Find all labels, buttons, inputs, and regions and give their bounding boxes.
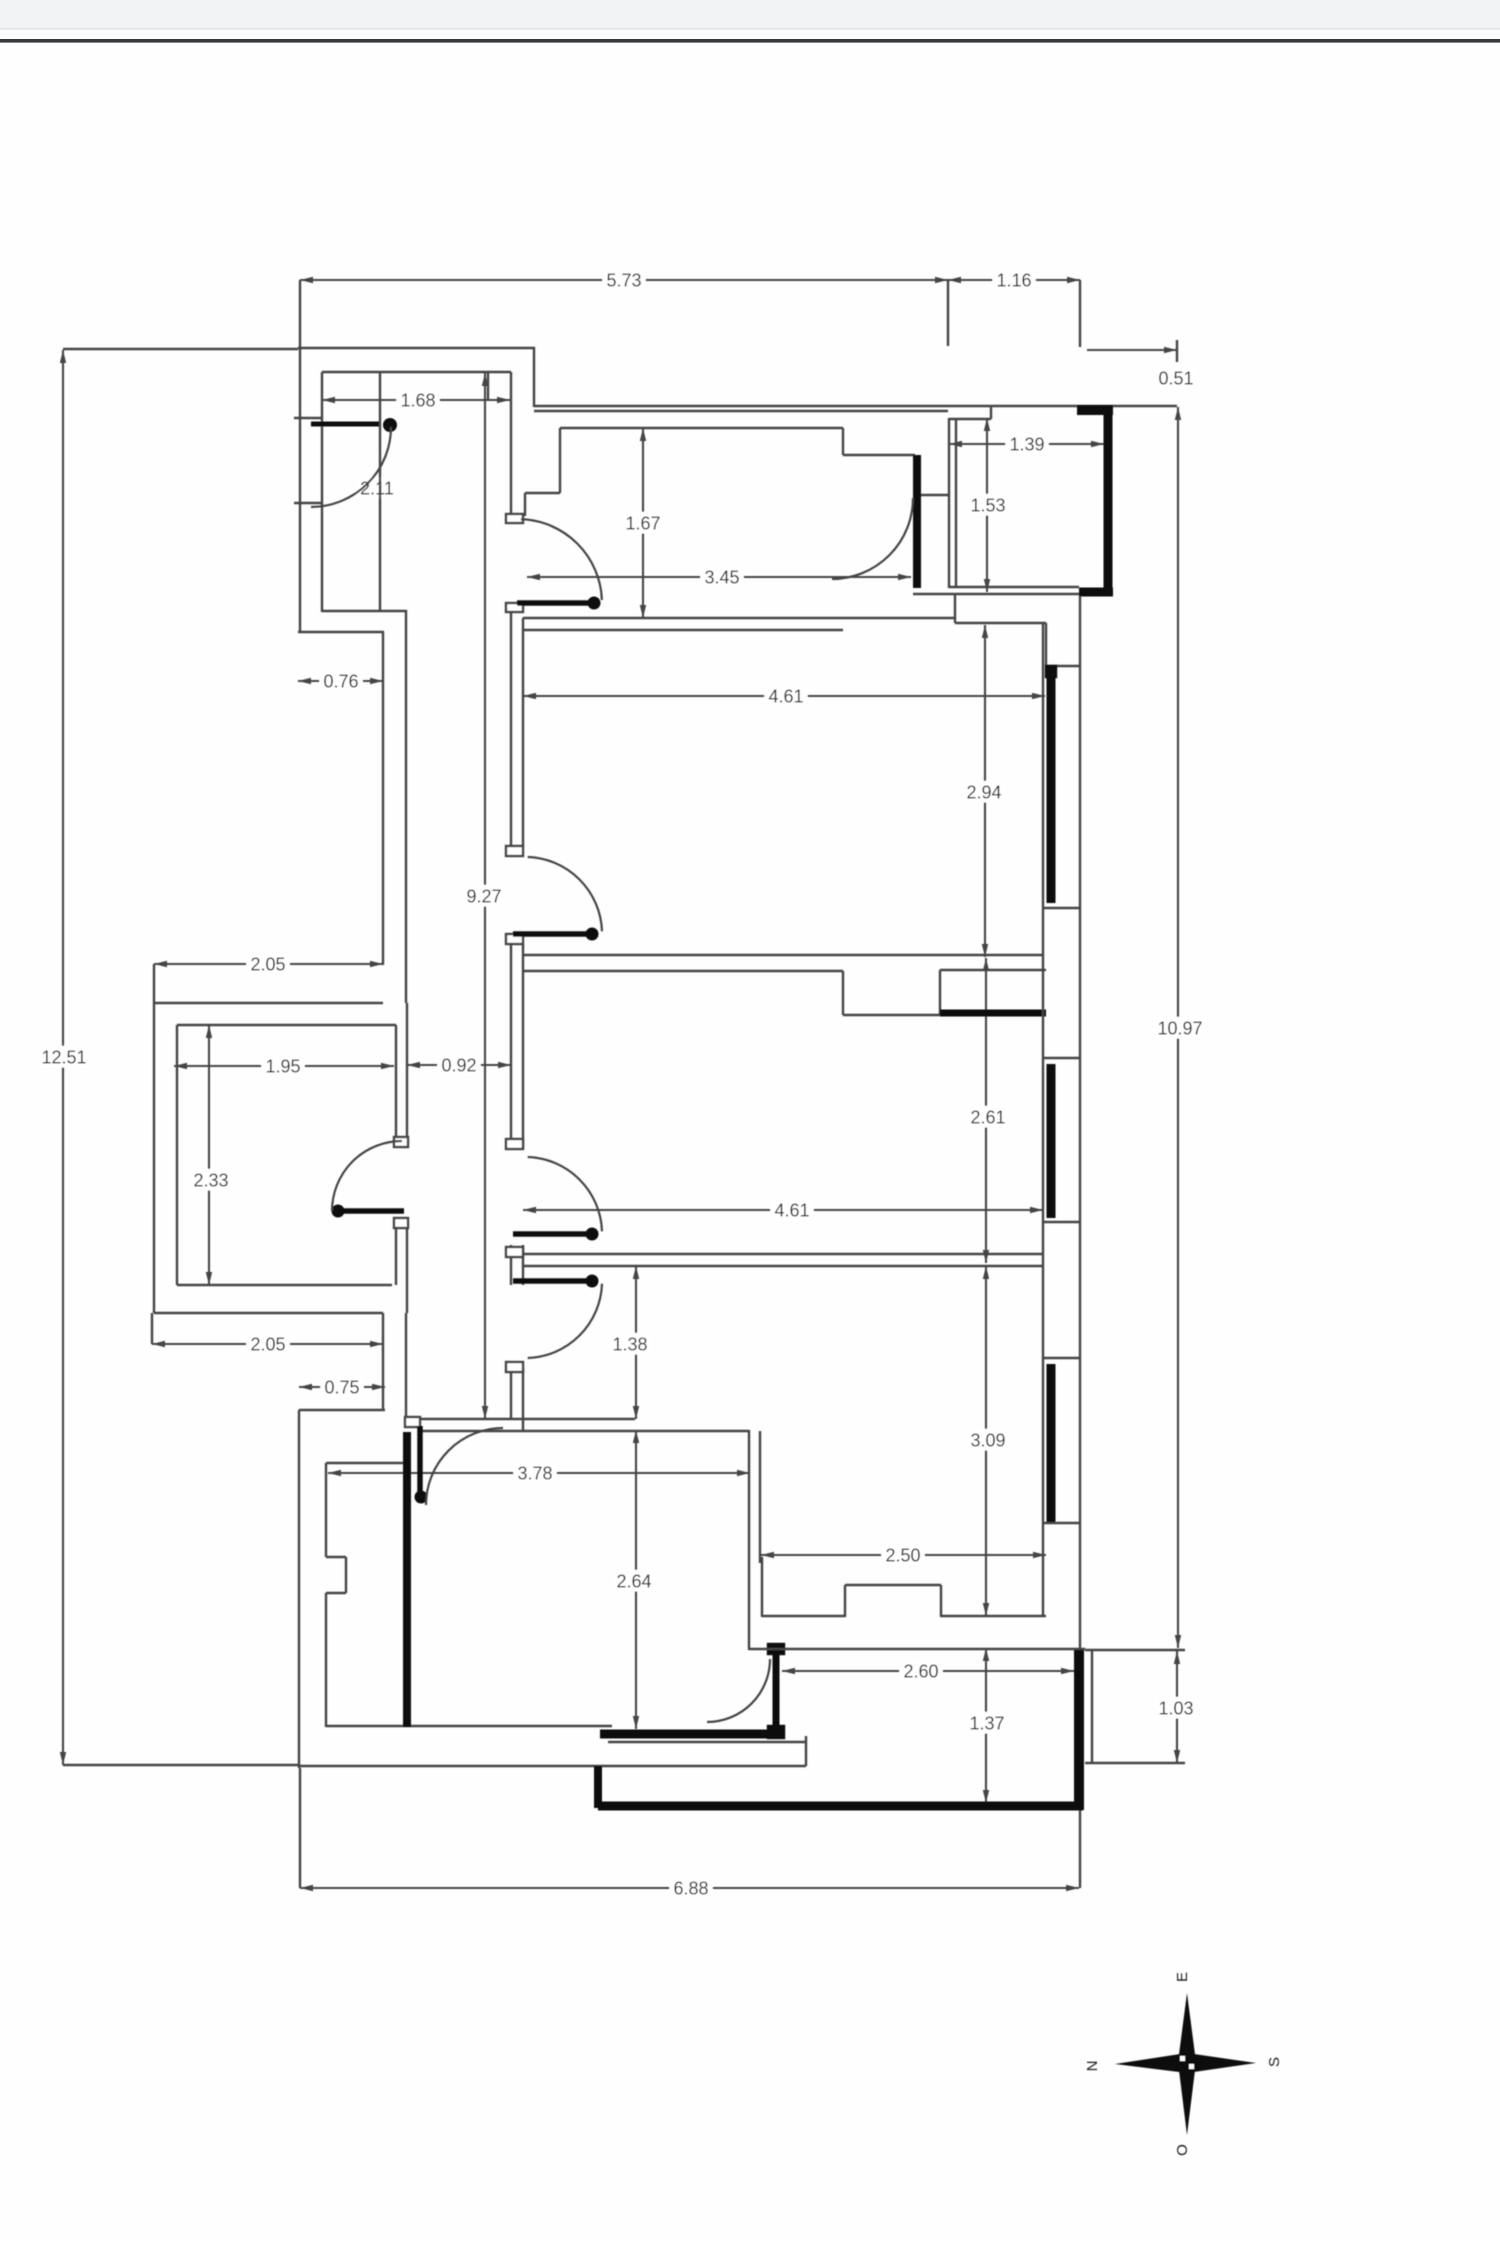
tick 1.03 top xyxy=(1085,1649,1185,1651)
dimension 2.05 upper left xyxy=(154,953,383,975)
bedroom1 top right link xyxy=(917,617,955,619)
window 3 thick line xyxy=(1047,1364,1056,1523)
svg-text:1.53: 1.53 xyxy=(970,495,1005,515)
wc door knob xyxy=(332,1205,345,1218)
wardrobe niche left xyxy=(842,971,844,1015)
svg-text:2.61: 2.61 xyxy=(970,1107,1005,1127)
extension line left for 5.73 xyxy=(299,280,301,345)
extension 6.88 right xyxy=(1079,1810,1081,1888)
label 2.11 xyxy=(355,477,398,499)
wardrobe niche bottom xyxy=(843,1014,940,1016)
door arc balcony xyxy=(311,427,391,507)
terrace edge right vertical xyxy=(1079,596,1081,1650)
bottomright room left wall inner xyxy=(759,1431,761,1563)
dimension 0.76 xyxy=(298,670,383,692)
top-right room thick bottom xyxy=(1079,588,1113,597)
corridor left wall mid outer xyxy=(406,1003,408,1137)
balcony left wall xyxy=(321,372,323,612)
duct box left xyxy=(487,372,489,400)
wc outer top wall xyxy=(154,1002,383,1004)
step under top-right room vertical xyxy=(1045,623,1047,666)
extension for 2.05 upper xyxy=(153,964,155,1003)
bedroom1 top wall xyxy=(523,617,917,619)
wc door jamb bottom xyxy=(394,1218,408,1228)
porch step thick vertical xyxy=(594,1766,602,1808)
top-right room left wall xyxy=(948,418,950,588)
door leaf bedroom3 xyxy=(513,1278,598,1284)
balcony right wall xyxy=(379,372,381,612)
window 2 bottom tick xyxy=(1043,1221,1080,1223)
wc inner right wall upper xyxy=(395,1025,397,1137)
hall door arc xyxy=(426,1428,503,1505)
extension line mid for 5.73/1.16 xyxy=(947,280,949,346)
kitchen outer top xyxy=(299,1409,385,1411)
wardrobe niche right xyxy=(939,970,941,1015)
dimension 2.33 xyxy=(189,1025,232,1285)
dimension 1.53 xyxy=(966,418,1009,592)
door arc corridor top xyxy=(521,519,602,600)
svg-text:5.73: 5.73 xyxy=(606,270,641,290)
wc inner left wall xyxy=(176,1025,178,1285)
dimension 2.05 lower left xyxy=(152,1333,383,1355)
dimension 2.64 xyxy=(612,1430,655,1729)
balcony top wall xyxy=(322,371,511,373)
svg-text:3.45: 3.45 xyxy=(704,567,739,587)
entrance door jamb top xyxy=(768,1644,784,1654)
extension 6.88 left xyxy=(299,1768,301,1888)
thick interior wall xyxy=(403,1432,411,1727)
entrance door leaf xyxy=(773,1650,780,1737)
hall door jamb xyxy=(405,1417,420,1427)
dimension 9.27 corridor xyxy=(462,373,505,1419)
wc door jamb top xyxy=(394,1137,408,1147)
bedroom1 bottom wall xyxy=(523,954,1043,956)
door arc room A xyxy=(832,498,913,579)
window nub upper xyxy=(1046,666,1056,677)
corridor right wall inner seg3 xyxy=(522,1245,524,1285)
dimension 0.92 xyxy=(407,1054,511,1076)
door arc bedroom2 xyxy=(528,1157,602,1231)
window 2 thick line xyxy=(1047,1064,1056,1218)
bedroom2 bottom wall inner xyxy=(523,1265,1043,1267)
dimension 1.37 xyxy=(965,1648,1008,1803)
top toolbar band xyxy=(0,0,1500,30)
thick wall right of room A xyxy=(913,455,921,588)
door jamb bedroom3 top xyxy=(506,1362,523,1372)
entrance thick wall xyxy=(600,1730,772,1739)
svg-text:1.39: 1.39 xyxy=(1009,434,1044,454)
kitchen notch top xyxy=(326,1556,346,1558)
svg-text:2.11: 2.11 xyxy=(360,478,394,498)
dimension 1.03 xyxy=(1154,1651,1197,1763)
svg-text:1.37: 1.37 xyxy=(969,1713,1004,1733)
svg-text:1.68: 1.68 xyxy=(400,390,435,410)
bottomright room bottom inner wall xyxy=(749,1648,1085,1650)
dimension 4.61 upper xyxy=(523,685,1045,707)
window 3 top tick xyxy=(1043,1357,1080,1359)
dimension 6.88 bottom xyxy=(300,1877,1079,1899)
svg-text:0.51: 0.51 xyxy=(1158,368,1193,388)
duct box right xyxy=(510,372,512,400)
corridor right wall outer seg3 xyxy=(510,944,512,1141)
svg-text:2.50: 2.50 xyxy=(885,1545,920,1565)
dimension 12.51 left xyxy=(38,350,91,1765)
bottomright room left wall outer xyxy=(748,1430,750,1650)
kitchen inner bottom xyxy=(326,1725,612,1727)
outer wall step vertical xyxy=(533,347,535,407)
dimension 2.50 xyxy=(761,1544,1046,1566)
kitchen inner left wall lower xyxy=(325,1593,327,1727)
room A left wall xyxy=(559,428,561,493)
top-right room bottom wall outer xyxy=(913,593,1079,595)
door jamb corridor top a xyxy=(506,514,523,523)
step under top-right room horizontal b xyxy=(1046,665,1080,667)
door knob bedroom3 xyxy=(586,1275,599,1288)
room A jog down right xyxy=(842,428,844,455)
dimension 3.78 xyxy=(328,1462,750,1484)
closet notch left xyxy=(844,1585,846,1617)
bottomright room top wall xyxy=(420,1430,749,1432)
extension line bottom for 12.51 xyxy=(63,1764,299,1766)
svg-text:0.76: 0.76 xyxy=(323,671,358,691)
svg-text:9.27: 9.27 xyxy=(466,886,501,906)
dimension 10.97 right xyxy=(1154,407,1207,1648)
svg-text:0.92: 0.92 xyxy=(441,1055,476,1075)
dimension 1.67 xyxy=(621,428,664,618)
kitchen inner top xyxy=(326,1462,404,1464)
svg-text:2.94: 2.94 xyxy=(966,782,1001,802)
wc outer left wall xyxy=(153,1003,155,1313)
door leaf corridor top xyxy=(517,600,598,606)
svg-text:4.61: 4.61 xyxy=(768,686,803,706)
svg-text:0.75: 0.75 xyxy=(324,1377,359,1397)
door leaf top-left balcony xyxy=(311,422,379,427)
entrance door arc xyxy=(707,1659,770,1722)
corridor left wall mid lower xyxy=(406,1228,408,1313)
room A step vertical xyxy=(524,493,526,516)
tick on wall upper xyxy=(294,417,322,419)
window 3 bottom tick xyxy=(1043,1522,1080,1524)
bottom thick wall xyxy=(598,1802,1083,1811)
svg-text:2.64: 2.64 xyxy=(616,1571,651,1591)
dimension 1.16 top xyxy=(948,269,1080,291)
wc outer bottom wall xyxy=(154,1312,383,1314)
extension line right for 1.16 xyxy=(1079,280,1081,347)
dimension 4.61 middle xyxy=(523,1199,1043,1221)
bottomright room right thin line xyxy=(1091,1650,1093,1762)
porch slab top xyxy=(608,1741,806,1743)
bedroom3 right wall xyxy=(1042,1266,1044,1617)
compass letter N left xyxy=(1084,2061,1101,2072)
wall face segment right xyxy=(940,969,1046,971)
kitchen notch right xyxy=(345,1557,347,1593)
dimension 5.73 top xyxy=(300,269,948,291)
door knob corridor top xyxy=(588,597,601,610)
compass letter S right xyxy=(1266,2057,1283,2067)
dimension 1.68 xyxy=(322,389,510,411)
svg-text:12.51: 12.51 xyxy=(41,1047,86,1067)
door leaf bedroom1 xyxy=(513,931,598,937)
step under top-right room horizontal a xyxy=(955,622,1046,624)
room A top wall right part xyxy=(843,454,915,456)
dimension 3.45 xyxy=(527,566,911,588)
window 2 top tick xyxy=(1043,1057,1080,1059)
outer wall top horizontal xyxy=(534,405,1177,407)
tick on wall lower xyxy=(294,502,322,504)
bedroom1 right jog vertical xyxy=(954,594,956,623)
corridor right wall inner seg4 xyxy=(522,1368,524,1431)
closet notch top xyxy=(845,1584,941,1586)
bedroom1 bottom wall inner xyxy=(523,970,843,972)
dimension 2.61 xyxy=(966,958,1009,1263)
closet box bottom b xyxy=(941,1615,1046,1617)
svg-text:O: O xyxy=(1174,2144,1191,2156)
porch slab right xyxy=(805,1736,807,1766)
closet box bottom a xyxy=(762,1615,845,1617)
top-right room bottom wall inner xyxy=(949,586,1079,588)
bedroom2 right wall xyxy=(1042,958,1044,1266)
bedroom2 bottom wall xyxy=(521,1253,1043,1255)
jog to top-right room xyxy=(921,494,949,496)
dimension 0.51 top right xyxy=(1087,340,1198,388)
door jamb bedroom1 bottom xyxy=(506,934,523,944)
wc inner top wall xyxy=(177,1024,396,1026)
dimension 0.75 xyxy=(299,1376,385,1398)
outer bottom wall xyxy=(299,1765,806,1767)
svg-text:6.88: 6.88 xyxy=(673,1878,708,1898)
wardrobe sliding door thick xyxy=(940,1010,1046,1017)
corridor right wall inner xyxy=(522,618,524,846)
bottomright room right wall thick xyxy=(1074,1650,1084,1810)
top-right room jog vertical xyxy=(990,407,992,419)
corridor bottom wall xyxy=(407,1418,635,1420)
corridor left wall lower outer xyxy=(382,1313,384,1410)
kitchen notch bottom xyxy=(326,1592,346,1594)
corridor left wall upper (inner) xyxy=(405,610,407,1003)
svg-text:10.97: 10.97 xyxy=(1157,1018,1202,1038)
dimension 1.39 xyxy=(949,433,1104,455)
door jamb bedroom1 top xyxy=(506,846,523,856)
svg-text:2.60: 2.60 xyxy=(903,1661,938,1681)
door knob dot balcony xyxy=(383,418,397,432)
kitchen inner left wall upper xyxy=(325,1463,327,1557)
svg-text:4.61: 4.61 xyxy=(774,1200,809,1220)
wc door arc xyxy=(332,1141,402,1211)
compass rose xyxy=(1115,1993,1256,2135)
outer wall left vertical xyxy=(299,345,301,633)
top-right room top jog xyxy=(949,418,991,420)
closet box left xyxy=(761,1557,763,1617)
extension line top for 12.51 xyxy=(63,348,298,350)
corridor left wall lower inner xyxy=(405,1313,407,1419)
dimension 3.09 xyxy=(966,1266,1009,1616)
dimension 2.94 xyxy=(962,625,1005,957)
top-right room left wall inner xyxy=(955,419,957,587)
svg-text:S: S xyxy=(1266,2057,1283,2067)
dimension 2.60 xyxy=(782,1660,1074,1682)
svg-text:1.67: 1.67 xyxy=(625,513,660,533)
wc door leaf xyxy=(332,1208,404,1214)
corridor right wall inner seg2 xyxy=(522,944,524,1148)
window 1 bottom tick xyxy=(1043,907,1080,909)
svg-text:E: E xyxy=(1174,1972,1191,1982)
top-right room thick right wall xyxy=(1104,410,1113,596)
svg-text:1.03: 1.03 xyxy=(1158,1698,1193,1718)
svg-text:1.95: 1.95 xyxy=(265,1056,300,1076)
svg-text:2.05: 2.05 xyxy=(250,1334,285,1354)
hall door leaf xyxy=(417,1426,423,1500)
wall bottom of top-left section xyxy=(298,631,384,633)
kitchen outer left wall xyxy=(298,1410,300,1768)
svg-text:2.33: 2.33 xyxy=(193,1170,228,1190)
door arc bedroom1 xyxy=(528,857,602,931)
closet notch right xyxy=(940,1585,942,1617)
outer wall top-left horizontal xyxy=(298,347,535,349)
svg-text:N: N xyxy=(1084,2061,1101,2072)
entrance door jamb bottom xyxy=(768,1726,784,1738)
svg-text:1.16: 1.16 xyxy=(996,270,1031,290)
svg-text:3.09: 3.09 xyxy=(970,1430,1005,1450)
outer wall top inner face xyxy=(534,410,948,412)
bedroom1 top wall inner xyxy=(523,629,843,631)
door leaf bedroom2 xyxy=(513,1231,598,1237)
compass letter O bottom xyxy=(1174,2144,1191,2156)
room A top wall xyxy=(560,427,843,429)
door jamb bedroom2 bottom xyxy=(506,1247,523,1257)
svg-text:2.05: 2.05 xyxy=(250,954,285,974)
door jamb corridor top b xyxy=(506,603,523,612)
top-right room thick top wall xyxy=(1077,405,1113,415)
corridor left wall upper (outer) xyxy=(382,632,384,965)
hall door knob xyxy=(415,1491,428,1504)
corridor right wall outer seg2 xyxy=(510,603,512,846)
door knob bedroom1 xyxy=(586,928,599,941)
dimension 1.38 xyxy=(608,1266,651,1419)
svg-text:3.78: 3.78 xyxy=(517,1463,552,1483)
corridor right wall outer seg5 xyxy=(510,1368,512,1419)
corridor right wall outer seg4 xyxy=(510,1245,512,1285)
wc inner bottom wall xyxy=(177,1284,392,1286)
door arc bedroom3 xyxy=(528,1284,602,1358)
bedroom1 right wall xyxy=(1042,623,1044,958)
compass letter E top xyxy=(1174,1972,1191,1982)
balcony bottom wall xyxy=(322,610,407,612)
wc inner right wall lower xyxy=(395,1228,397,1285)
window 1 thick line xyxy=(1047,667,1056,903)
tick 1.03 bottom xyxy=(1085,1762,1185,1764)
svg-text:1.38: 1.38 xyxy=(612,1334,647,1354)
door knob bedroom2 xyxy=(586,1228,599,1241)
corridor right wall outer xyxy=(510,400,512,516)
dimension 1.95 xyxy=(174,1055,394,1077)
room A step horizontal xyxy=(525,492,560,494)
extension for 2.05 lower xyxy=(151,1313,153,1344)
door jamb bedroom2 top xyxy=(506,1139,523,1149)
